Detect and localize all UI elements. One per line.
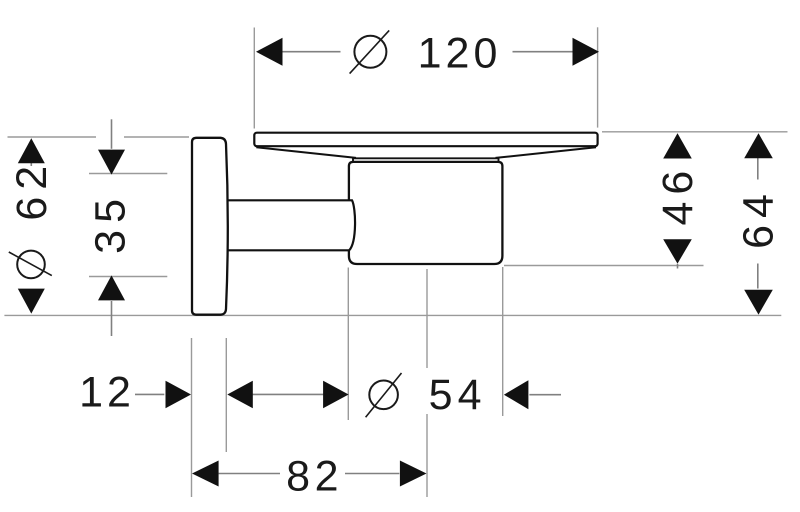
svg-text:54: 54	[429, 371, 487, 419]
svg-text:62: 62	[8, 159, 56, 221]
svg-text:46: 46	[654, 164, 702, 226]
svg-text:120: 120	[418, 30, 502, 78]
svg-text:64: 64	[734, 187, 782, 249]
svg-text:12: 12	[79, 368, 135, 416]
svg-text:35: 35	[86, 192, 134, 254]
svg-text:82: 82	[286, 452, 343, 500]
